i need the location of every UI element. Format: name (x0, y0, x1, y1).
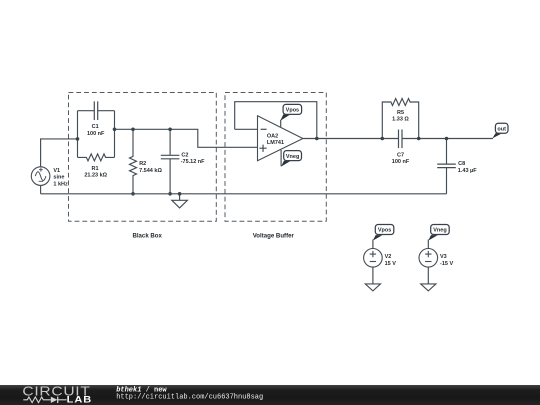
ground symbol (V3) (421, 284, 436, 291)
flag Vneg (op-amp V- pin) (281, 150, 301, 167)
voltage buffer box (dashed subcircuit boundary) (225, 93, 326, 222)
logo LAB text (67, 396, 93, 405)
wire op-amp minus input stub (235, 128, 258, 130)
voltage source V2 (364, 240, 397, 284)
capacitor C8 (437, 139, 477, 194)
black box (dashed subcircuit boundary) (69, 93, 217, 222)
svg-text:Vneg: Vneg (433, 228, 446, 234)
svg-text:C7: C7 (397, 152, 404, 158)
voltage source V3 (419, 240, 453, 284)
ground junction dot (178, 192, 182, 196)
svg-text:1 kHz: 1 kHz (53, 181, 68, 187)
wire op-amp output (303, 138, 493, 140)
resistor R1 (78, 154, 115, 179)
resistor R5 (382, 99, 418, 139)
svg-text:-15 V: -15 V (440, 261, 453, 267)
flag Vpos (V2 supply) (373, 225, 394, 241)
svg-text:LM741: LM741 (267, 140, 284, 146)
wire V1 bottom to ground rail (40, 185, 42, 193)
svg-text:V1: V1 (53, 168, 60, 174)
flag Vneg (V3 supply) (428, 225, 449, 241)
R2 top junction dot (131, 128, 135, 132)
svg-text:21.23 kΩ: 21.23 kΩ (84, 173, 107, 179)
svg-text:sine: sine (53, 175, 64, 181)
svg-text:Vpos: Vpos (378, 228, 391, 234)
C2 bottom junction dot (168, 192, 172, 196)
svg-text:OA2: OA2 (267, 134, 278, 140)
wire feedback loop (235, 102, 317, 139)
op-amp OA2 (258, 116, 303, 161)
C2 top junction dot (168, 128, 172, 132)
capacitor C1 (78, 101, 115, 136)
svg-text:-75.12 nF: -75.12 nF (181, 159, 205, 165)
logo resistor-diode line (23, 397, 66, 403)
svg-text:100 nF: 100 nF (392, 159, 410, 165)
ground symbol (V2) (365, 284, 380, 291)
flag Vpos (op-amp V+ pin) (280, 104, 301, 127)
svg-text:R5: R5 (397, 110, 404, 116)
svg-text:Vneg: Vneg (286, 154, 299, 160)
svg-text:V2: V2 (385, 254, 392, 260)
footer url text (116, 394, 263, 402)
svg-text:out: out (497, 126, 506, 132)
svg-text:Black Box: Black Box (132, 233, 162, 240)
svg-text:1.33 Ω: 1.33 Ω (392, 117, 409, 123)
svg-text:C1: C1 (92, 124, 99, 130)
node B junction dot (combo output) (113, 128, 117, 132)
svg-text:Vpos: Vpos (286, 108, 299, 114)
svg-text:15 V: 15 V (385, 261, 397, 267)
svg-text:http://circuitlab.com/cu6637hn: http://circuitlab.com/cu6637hnu8sag (116, 394, 263, 402)
C8 top junction dot (445, 137, 449, 141)
footer bar (0, 385, 540, 405)
output junction dot (315, 137, 319, 141)
svg-text:C8: C8 (458, 161, 465, 167)
node A junction dot (76, 137, 80, 141)
ground rail wire (41, 193, 447, 195)
parallel combo frame C1/R1 (78, 111, 115, 158)
svg-text:100 nF: 100 nF (87, 131, 105, 137)
svg-text:1.43 µF: 1.43 µF (458, 168, 477, 174)
footer title text (116, 387, 167, 395)
logo CIRCUIT text (22, 385, 90, 399)
svg-text:7.544 kΩ: 7.544 kΩ (139, 168, 162, 174)
svg-text:C2: C2 (181, 153, 188, 159)
capacitor C7 (392, 130, 410, 166)
label Voltage Buffer (253, 233, 295, 240)
svg-text:R1: R1 (91, 166, 98, 172)
resistor R2 (130, 129, 163, 194)
svg-text:LAB: LAB (67, 396, 93, 405)
flag out (492, 123, 508, 138)
R2 bottom junction dot (131, 192, 135, 196)
R5 right junction dot (417, 137, 421, 141)
svg-text:R2: R2 (139, 161, 146, 167)
R5 left junction dot (381, 137, 385, 141)
svg-text:Voltage Buffer: Voltage Buffer (253, 233, 295, 240)
wire combo output to op-amp + input (115, 129, 258, 147)
capacitor C2 (161, 129, 205, 194)
wire V1 top to node A (41, 139, 78, 167)
voltage source V1 (31, 167, 68, 188)
svg-text:V3: V3 (440, 254, 447, 260)
ground symbol (black box) (172, 194, 188, 208)
label Black Box (132, 233, 162, 240)
